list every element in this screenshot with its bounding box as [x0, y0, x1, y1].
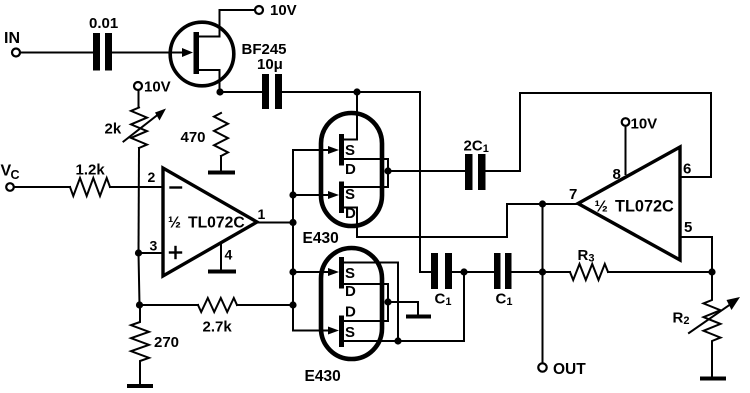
svg-text:4: 4: [225, 247, 233, 263]
svg-text:10V: 10V: [631, 116, 658, 133]
svg-text:D: D: [345, 283, 356, 300]
svg-text:S: S: [345, 186, 355, 203]
svg-text:0.01: 0.01: [89, 15, 118, 32]
svg-text:5: 5: [684, 219, 692, 236]
svg-text:3: 3: [150, 238, 158, 254]
svg-text:1: 1: [258, 206, 266, 222]
svg-text:D: D: [345, 161, 356, 178]
svg-text:R3: R3: [578, 247, 595, 265]
svg-text:470: 470: [181, 129, 206, 146]
svg-text:8: 8: [613, 166, 621, 183]
svg-text:OUT: OUT: [553, 361, 586, 378]
svg-text:270: 270: [154, 334, 179, 351]
svg-text:2k: 2k: [105, 121, 122, 138]
svg-text:2.7k: 2.7k: [203, 319, 233, 336]
svg-text:2C1: 2C1: [464, 138, 489, 156]
svg-text:7: 7: [569, 186, 577, 203]
svg-text:½TL072C: ½TL072C: [168, 215, 245, 232]
svg-text:C1: C1: [435, 291, 452, 309]
svg-text:S: S: [345, 142, 355, 159]
svg-text:IN: IN: [4, 30, 20, 47]
svg-text:1.2k: 1.2k: [76, 162, 106, 179]
svg-text:½TL072C: ½TL072C: [595, 198, 675, 216]
svg-text:C1: C1: [496, 291, 513, 309]
svg-text:D: D: [345, 205, 356, 222]
svg-text:E430: E430: [305, 368, 341, 385]
svg-text:10V: 10V: [144, 79, 171, 96]
svg-text:S: S: [345, 265, 355, 282]
svg-text:S: S: [345, 324, 355, 341]
svg-text:10μ: 10μ: [257, 56, 283, 73]
svg-text:6: 6: [683, 161, 691, 178]
svg-text:E430: E430: [303, 230, 339, 247]
svg-text:10V: 10V: [270, 2, 297, 19]
svg-text:C: C: [11, 168, 20, 182]
svg-text:D: D: [345, 304, 356, 321]
svg-text:R2: R2: [673, 310, 690, 328]
svg-text:2: 2: [148, 169, 156, 185]
